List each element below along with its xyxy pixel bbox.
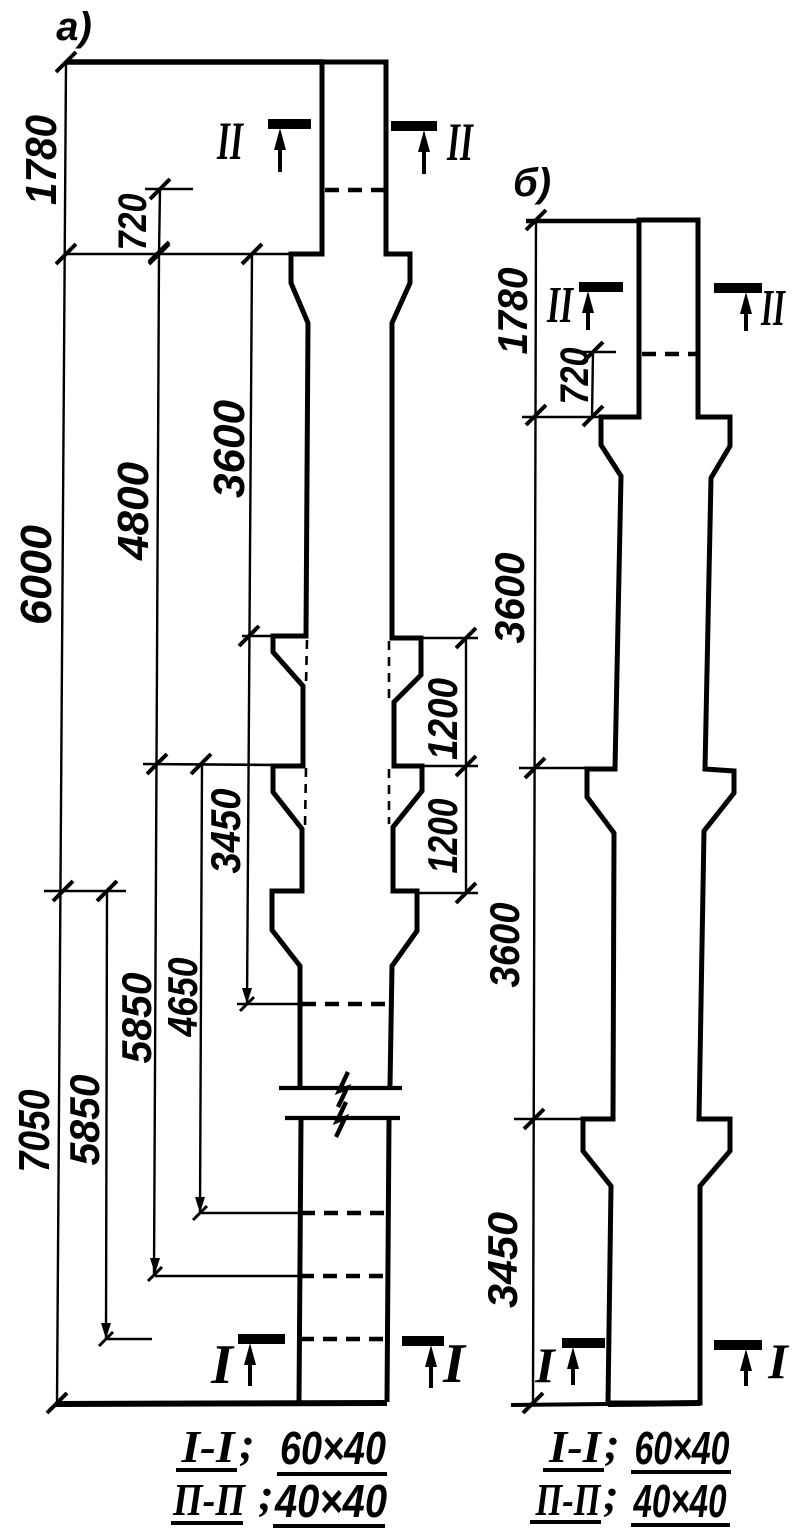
svg-text:I: I <box>534 1337 556 1393</box>
dashed level 3450/4650 end <box>302 1002 389 1007</box>
dim line b 1780/3600/3600/3450 <box>533 220 536 1403</box>
tick <box>53 881 73 901</box>
svg-text:60×40: 60×40 <box>280 1422 386 1474</box>
caption a underline2a <box>171 1521 243 1525</box>
column a hidden edge dashes <box>306 640 307 684</box>
caption b underline1a <box>543 1468 604 1472</box>
svg-text:5850: 5850 <box>61 1075 108 1166</box>
tick <box>56 244 76 264</box>
caption b underline2a <box>530 1520 601 1524</box>
ext 3450 bottom <box>237 1003 302 1006</box>
dim line 1780/6000/7050 <box>57 62 66 1403</box>
tick <box>583 406 603 426</box>
dim line 1200 <box>465 638 467 894</box>
ext 1780 bottom <box>64 253 291 256</box>
svg-text:П-П: П-П <box>535 1474 602 1525</box>
ext 6000 level <box>44 890 126 893</box>
svg-text:б): б) <box>513 161 551 205</box>
tick <box>456 756 476 776</box>
break line upper <box>279 1086 402 1090</box>
svg-text:3450: 3450 <box>202 789 249 874</box>
tick <box>150 179 170 199</box>
ext 4800 level left <box>143 764 275 765</box>
section mark I left <box>238 1334 285 1344</box>
section mark b II left <box>579 282 623 292</box>
tick <box>583 342 603 362</box>
svg-text:II: II <box>760 280 786 337</box>
svg-text:;: ; <box>603 1469 618 1520</box>
tick <box>97 881 117 901</box>
arrow 3450 end <box>242 988 252 1004</box>
section mark I right <box>402 1336 444 1346</box>
svg-text:3450: 3450 <box>479 1212 526 1308</box>
arrow 5850i end <box>150 1258 160 1274</box>
tick <box>56 52 76 72</box>
svg-text:3600: 3600 <box>205 399 254 498</box>
column a bottom edge <box>56 1403 387 1404</box>
dashed level 720 <box>325 188 384 193</box>
caption b underline2b <box>631 1523 730 1527</box>
tick <box>147 754 167 774</box>
tick <box>456 883 476 903</box>
ext 720 top bar <box>145 188 193 191</box>
section mark b I right <box>714 1340 762 1350</box>
svg-text:4800: 4800 <box>109 461 158 561</box>
svg-text:II: II <box>446 112 474 172</box>
caption a underline1b <box>277 1472 387 1476</box>
ext 3600 level right <box>392 637 478 640</box>
arrow 5850o end <box>101 1323 111 1339</box>
svg-text:I-I: I-I <box>548 1421 603 1472</box>
section mark II right <box>391 121 437 131</box>
column b outline <box>583 220 734 1403</box>
svg-text:П-П: П-П <box>172 1474 246 1525</box>
svg-text:1780: 1780 <box>489 268 536 355</box>
column a outline upper <box>272 62 422 1086</box>
svg-text:I: I <box>767 1333 789 1389</box>
dashed level b 720 <box>642 352 697 357</box>
caption b underline1b <box>631 1470 731 1474</box>
dim line 720 <box>159 189 160 254</box>
tick <box>191 754 211 774</box>
column a outline lower <box>299 1120 389 1402</box>
ext b 720 top bar <box>575 351 616 354</box>
svg-text:3600: 3600 <box>486 553 533 644</box>
svg-text:4650: 4650 <box>159 958 206 1038</box>
svg-text:;: ; <box>239 1418 254 1469</box>
ext 4800 level right <box>394 765 478 768</box>
dim line b 720 <box>592 352 593 417</box>
dim line 4650 <box>200 764 202 1213</box>
svg-text:;: ; <box>258 1469 273 1520</box>
tick <box>47 1393 67 1413</box>
section mark b II right <box>714 283 762 293</box>
ext 5850i bottom <box>155 1275 300 1278</box>
dim line 3600/3450 <box>247 254 252 1004</box>
ext 5850o bottom <box>107 1338 152 1341</box>
dashed level 2 <box>300 1274 387 1279</box>
svg-text:I: I <box>442 1333 467 1395</box>
svg-text:40×40: 40×40 <box>633 1475 727 1527</box>
svg-text:1780: 1780 <box>17 115 66 205</box>
svg-text:40×40: 40×40 <box>274 1475 387 1527</box>
svg-text:720: 720 <box>553 348 597 405</box>
dim line 4800/5850 <box>154 254 159 1274</box>
svg-text:6000: 6000 <box>12 524 61 625</box>
tick <box>456 628 476 648</box>
ext 1200 bottom right <box>417 892 478 895</box>
tick <box>524 1109 544 1129</box>
svg-text:720: 720 <box>111 194 155 251</box>
svg-text:1200: 1200 <box>419 678 466 760</box>
ext b top <box>526 219 640 224</box>
svg-text:1200: 1200 <box>419 799 466 874</box>
section mark b I left <box>562 1338 605 1348</box>
svg-text:60×40: 60×40 <box>635 1422 730 1474</box>
tick <box>149 244 169 264</box>
dashed level 1 <box>301 1211 388 1216</box>
dim line 5850 outer <box>106 891 107 1339</box>
ext b bottom <box>511 1404 608 1405</box>
svg-text:II: II <box>216 111 244 171</box>
ext 4650 bottom <box>201 1212 301 1215</box>
svg-text:I-I: I-I <box>180 1421 236 1472</box>
ext b 3600-2 level <box>514 1118 583 1121</box>
svg-text:;: ; <box>604 1418 619 1469</box>
tick <box>239 626 259 646</box>
tick <box>149 242 169 262</box>
svg-text:5850: 5850 <box>113 973 160 1064</box>
svg-text:II: II <box>546 277 574 334</box>
svg-text:7050: 7050 <box>10 1089 59 1172</box>
caption a underline1a <box>176 1468 237 1472</box>
section mark II left <box>268 119 311 129</box>
ext b 3600 level <box>519 767 587 770</box>
ext top <box>66 59 324 65</box>
tick <box>242 244 262 264</box>
tick <box>525 758 545 778</box>
svg-text:I: I <box>210 1334 235 1396</box>
tick <box>526 405 546 425</box>
break bolt upper <box>338 1072 348 1107</box>
dashed level 3 <box>300 1337 387 1342</box>
ext b 1780 bottom <box>522 416 601 419</box>
break bolt lower <box>336 1102 346 1137</box>
svg-text:а): а) <box>56 5 92 49</box>
svg-text:3600: 3600 <box>481 903 528 988</box>
tick <box>523 1393 543 1413</box>
column b bottom edge <box>608 1403 700 1404</box>
ext 3600 level left <box>242 635 275 638</box>
arrow 4650 end <box>195 1197 205 1213</box>
tick <box>526 210 546 230</box>
caption a underline2b <box>273 1524 385 1528</box>
break line lower <box>285 1116 400 1120</box>
